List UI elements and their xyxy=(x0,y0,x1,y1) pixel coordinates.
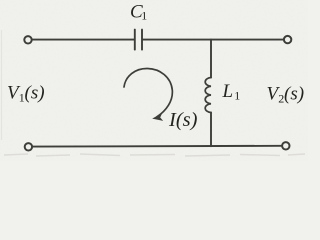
capacitor C1 left plate xyxy=(134,30,136,50)
svg-text:L: L xyxy=(222,81,234,102)
bottom scan noise band xyxy=(4,154,305,156)
wire bottom xyxy=(33,145,281,148)
svg-text:1: 1 xyxy=(141,9,147,23)
svg-text:(s): (s) xyxy=(25,83,45,104)
wire vertical branch upper segment xyxy=(210,40,212,78)
paper background xyxy=(0,0,308,161)
terminal top-left xyxy=(24,36,31,43)
mesh current arrow I(s) xyxy=(124,68,172,116)
wire capacitor to terminal top-right xyxy=(143,39,283,41)
svg-text:1: 1 xyxy=(234,89,240,103)
wire top-left to capacitor xyxy=(32,39,134,41)
terminal top-right xyxy=(284,36,291,43)
wire vertical branch lower segment xyxy=(210,113,212,147)
terminal bottom-right xyxy=(282,142,289,149)
left edge faint scan smear xyxy=(1,30,3,140)
mesh current arrowhead xyxy=(152,113,163,121)
svg-text:I(s): I(s) xyxy=(168,109,198,131)
capacitor C1 right plate xyxy=(141,30,143,50)
svg-text:(s): (s) xyxy=(284,84,304,105)
inductor L1 coil xyxy=(205,78,211,113)
terminal bottom-left xyxy=(25,143,32,150)
